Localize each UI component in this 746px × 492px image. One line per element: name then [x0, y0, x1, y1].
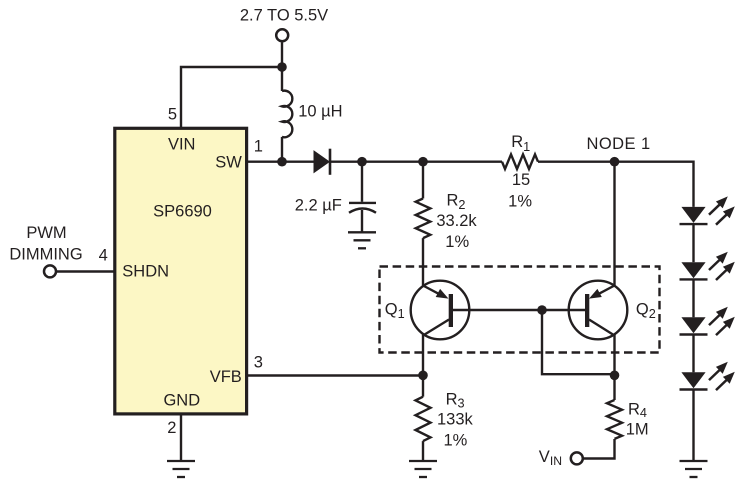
svg-text:DIMMING: DIMMING: [9, 245, 82, 263]
resistor R2 33.2k 1%: [416, 199, 431, 239]
node junction SW/inductor: [277, 157, 287, 167]
svg-text:Q1: Q1: [385, 300, 405, 320]
wire Q1 base to Q2 base: [453, 309, 586, 311]
terminal PWM DIMMING: [44, 265, 56, 277]
wire NODE1 down to Q2 emitter: [613, 162, 615, 287]
ground (capacitor): [348, 232, 376, 248]
svg-text:R1: R1: [511, 133, 530, 154]
IC U1 SP6690 body: [115, 128, 247, 414]
supply terminal 2.7 TO 5.5V: [276, 29, 288, 41]
wire LED4 to ground: [692, 390, 694, 462]
svg-text:1%: 1%: [445, 233, 469, 251]
svg-text:133k: 133k: [437, 411, 474, 429]
svg-text:1%: 1%: [443, 432, 467, 450]
diode D1: [314, 150, 331, 173]
node NODE 1 junction: [610, 157, 620, 167]
LED D3: [680, 252, 735, 280]
svg-text:SP6690: SP6690: [153, 203, 212, 221]
wire LED2-LED3: [692, 279, 694, 317]
transistor Q1: [411, 281, 470, 340]
resistor R3 133k 1%: [416, 397, 431, 441]
wire junction to pin 5: [181, 67, 282, 128]
wire R2 to Q1 emitter: [422, 238, 424, 286]
svg-text:Q2: Q2: [636, 301, 656, 321]
svg-text:GND: GND: [163, 391, 200, 409]
svg-text:R4: R4: [628, 401, 647, 421]
node base junction: [537, 305, 547, 315]
svg-text:1%: 1%: [508, 193, 532, 211]
wire inductor to SW node: [281, 137, 283, 162]
svg-text:VFB: VFB: [210, 368, 242, 386]
svg-text:1M: 1M: [626, 421, 649, 439]
wire R4 to VIN terminal: [584, 439, 615, 459]
node junction R2 branch: [418, 157, 428, 167]
resistor R4 1M: [607, 400, 622, 439]
svg-text:10 µH: 10 µH: [298, 102, 342, 120]
svg-text:33.2k: 33.2k: [436, 212, 477, 230]
svg-text:R2: R2: [447, 191, 466, 212]
svg-text:4: 4: [99, 247, 108, 265]
ground (LED string): [680, 461, 708, 477]
svg-text:SHDN: SHDN: [122, 263, 169, 281]
svg-text:SW: SW: [215, 153, 242, 171]
wire capacitor to ground: [361, 210, 363, 232]
wire VFB pin 3: [247, 374, 423, 376]
wire Q2 collector down: [613, 335, 615, 401]
wire supply terminal to junction: [281, 42, 283, 91]
node Q1 collector / VFB junction: [418, 371, 428, 381]
svg-text:1: 1: [254, 138, 263, 156]
wire diode to R1: [330, 160, 502, 162]
wire SHDN pin 4: [57, 270, 115, 272]
wire base junction down and right to Q2 collector node: [542, 310, 615, 374]
LED D5: [680, 362, 735, 390]
svg-text:2.2 µF: 2.2 µF: [295, 196, 342, 214]
svg-text:15: 15: [512, 171, 530, 189]
wire R2 branch down: [422, 162, 424, 199]
node junction capacitor branch: [357, 157, 367, 167]
svg-text:VIN: VIN: [539, 448, 562, 468]
svg-text:PWM: PWM: [26, 224, 66, 242]
wire R3 top: [422, 375, 424, 396]
wire Q1 collector down to node: [422, 335, 424, 376]
wire GND pin 2: [180, 414, 182, 462]
svg-text:VIN: VIN: [168, 135, 196, 153]
svg-text:2.7 TO 5.5V: 2.7 TO 5.5V: [240, 7, 328, 25]
LED D4: [680, 307, 735, 335]
ground (R3): [409, 461, 437, 477]
inductor L1 10uH: [282, 91, 292, 138]
wire R1 to NODE 1 to LED string: [538, 162, 694, 207]
svg-text:3: 3: [254, 354, 263, 372]
svg-text:5: 5: [168, 106, 177, 124]
svg-text:2: 2: [167, 419, 176, 437]
wire SW pin 1: [247, 160, 314, 162]
node Q2 collector / R4 junction: [610, 371, 620, 381]
svg-text:NODE 1: NODE 1: [587, 135, 651, 153]
LED D2: [680, 196, 735, 224]
node junction supply/VIN: [277, 62, 287, 72]
terminal VIN: [571, 452, 583, 464]
ground (pin 2): [167, 461, 195, 477]
transistor Q2: [569, 281, 628, 340]
dashed matched-pair box: [380, 267, 660, 353]
svg-text:R3: R3: [446, 390, 465, 410]
capacitor C1 2.2uF: [349, 202, 376, 204]
wire capacitor branch: [361, 162, 363, 202]
wire LED1-LED2: [692, 224, 694, 262]
wire R3 to ground: [422, 441, 424, 461]
resistor R1 15 1%: [502, 154, 538, 169]
wire LED3-LED4: [692, 335, 694, 373]
